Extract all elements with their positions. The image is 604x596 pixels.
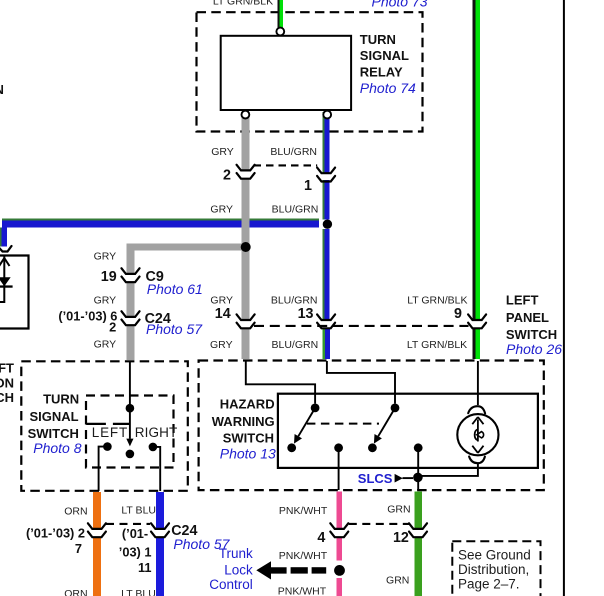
svg-text:9: 9 xyxy=(454,306,462,322)
svg-text:CH: CH xyxy=(0,390,14,405)
svg-text:TURN: TURN xyxy=(43,392,79,407)
svg-text:Photo 74: Photo 74 xyxy=(360,80,416,96)
svg-text:ON: ON xyxy=(0,376,14,391)
svg-text:FT: FT xyxy=(0,361,14,376)
svg-text:(’01-: (’01- xyxy=(122,526,148,541)
svg-text:RIGHT: RIGHT xyxy=(135,425,178,440)
svg-text:BLU/GRN: BLU/GRN xyxy=(272,339,319,351)
svg-text:Photo 8: Photo 8 xyxy=(33,440,81,456)
svg-text:TURN: TURN xyxy=(360,32,396,47)
svg-text:SIGNAL: SIGNAL xyxy=(360,48,409,63)
svg-text:GRY: GRY xyxy=(210,203,233,215)
svg-text:RELAY: RELAY xyxy=(360,65,403,80)
svg-text:Photo 61: Photo 61 xyxy=(147,281,203,297)
svg-text:PANEL: PANEL xyxy=(506,310,549,325)
svg-text:BLU/GRN: BLU/GRN xyxy=(270,146,317,158)
svg-text:ORN: ORN xyxy=(64,588,87,596)
svg-text:GRY: GRY xyxy=(210,294,233,306)
svg-text:LEFT: LEFT xyxy=(506,293,539,308)
svg-text:’03) 1: ’03) 1 xyxy=(119,544,152,559)
svg-text:Distribution,: Distribution, xyxy=(458,562,529,577)
svg-text:GRN: GRN xyxy=(386,575,409,587)
svg-text:SWITCH: SWITCH xyxy=(223,431,274,446)
svg-text:SLCS: SLCS xyxy=(358,471,393,486)
svg-text:LT GRN/BLK: LT GRN/BLK xyxy=(213,0,273,8)
svg-text:LT GRN/BLK: LT GRN/BLK xyxy=(407,339,467,351)
svg-text:GRY: GRY xyxy=(210,339,233,351)
svg-text:Photo 26: Photo 26 xyxy=(506,341,562,357)
svg-text:2: 2 xyxy=(109,320,116,335)
svg-text:SWITCH: SWITCH xyxy=(28,426,79,441)
svg-text:LT BLU: LT BLU xyxy=(121,588,156,596)
svg-text:GRN: GRN xyxy=(387,504,410,516)
svg-text:11: 11 xyxy=(138,560,152,575)
svg-text:Lock: Lock xyxy=(224,562,253,577)
svg-text:2: 2 xyxy=(223,167,231,183)
svg-text:WARNING: WARNING xyxy=(212,414,275,429)
svg-text:PNK/WHT: PNK/WHT xyxy=(278,586,327,596)
svg-text:Photo 13: Photo 13 xyxy=(220,446,276,462)
svg-text:BLU/GRN: BLU/GRN xyxy=(272,203,319,215)
svg-text:Trunk: Trunk xyxy=(219,546,253,561)
svg-text:HAZARD: HAZARD xyxy=(220,397,275,412)
svg-text:19: 19 xyxy=(101,269,117,285)
svg-text:GRY: GRY xyxy=(94,295,117,307)
svg-text:Control: Control xyxy=(209,577,253,592)
svg-text:Page 2–7.: Page 2–7. xyxy=(458,577,520,592)
svg-text:Photo 57: Photo 57 xyxy=(146,321,203,337)
svg-text:(’01-’03) 2: (’01-’03) 2 xyxy=(26,525,85,540)
svg-text:PNK/WHT: PNK/WHT xyxy=(279,550,328,562)
svg-text:SIGNAL: SIGNAL xyxy=(29,409,78,424)
svg-text:GRY: GRY xyxy=(94,250,117,262)
svg-text:GRY: GRY xyxy=(211,146,234,158)
svg-text:SWITCH: SWITCH xyxy=(506,327,557,342)
svg-text:LT BLU: LT BLU xyxy=(121,504,156,516)
svg-text:N: N xyxy=(0,82,4,97)
svg-text:GRY: GRY xyxy=(94,339,117,351)
svg-text:ORN: ORN xyxy=(64,506,87,518)
svg-text:13: 13 xyxy=(298,306,314,322)
svg-text:14: 14 xyxy=(215,306,231,322)
svg-text:1: 1 xyxy=(304,178,312,194)
svg-text:12: 12 xyxy=(393,530,409,546)
svg-text:BLU/GRN: BLU/GRN xyxy=(271,294,318,306)
svg-text:LT GRN/BLK: LT GRN/BLK xyxy=(407,294,467,306)
svg-text:LEFT: LEFT xyxy=(92,425,128,440)
svg-text:Photo 73: Photo 73 xyxy=(372,0,428,10)
svg-text:4: 4 xyxy=(317,530,325,546)
svg-text:7: 7 xyxy=(75,541,82,556)
svg-text:PNK/WHT: PNK/WHT xyxy=(279,505,328,517)
svg-text:See Ground: See Ground xyxy=(458,548,531,563)
